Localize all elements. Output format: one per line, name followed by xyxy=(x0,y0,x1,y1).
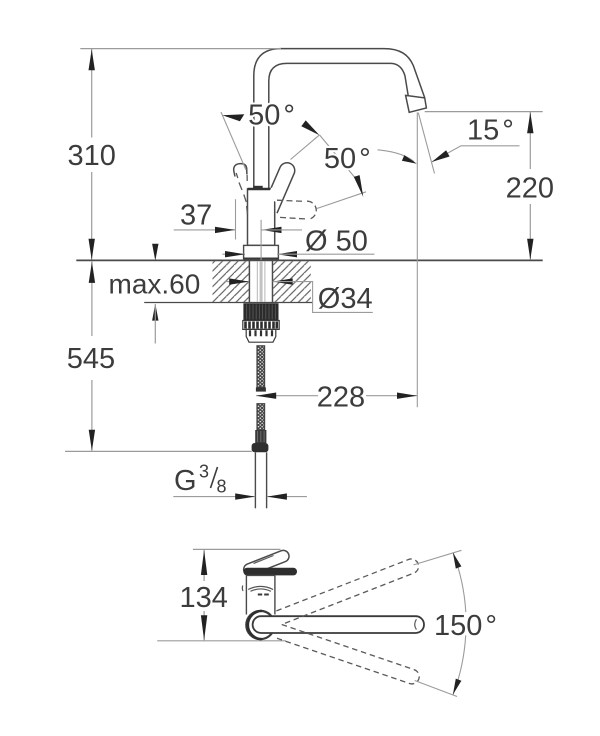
dimension 228 right arrow xyxy=(397,393,417,399)
dimension D34 left arrow tail xyxy=(225,281,249,283)
dimension 310 arrow up xyxy=(89,49,95,70)
dimension 37 right tail xyxy=(262,229,303,231)
angle 50 second: arc xyxy=(378,150,415,162)
angle 150: lower extension line xyxy=(415,681,457,697)
angle 50 second: arc arrow xyxy=(402,155,417,164)
dimension 228 left arrow xyxy=(256,393,276,399)
svg-text:3: 3 xyxy=(199,462,209,482)
threaded rod upper xyxy=(257,346,265,388)
dimension D34 left arrow xyxy=(229,278,249,284)
dimension 545 arrow up xyxy=(89,262,95,283)
svg-text:37: 37 xyxy=(180,200,212,232)
dimension max.60 arrow down (above counter) xyxy=(152,244,158,261)
angle 150: arrow bottom xyxy=(453,679,462,695)
dashed swivel spout upper xyxy=(276,559,418,625)
left lever left edge xyxy=(234,171,235,177)
nut ring slots xyxy=(246,322,277,329)
svg-text:150°: 150° xyxy=(434,610,497,642)
nut collar slots xyxy=(250,330,272,336)
svg-text:50°: 50° xyxy=(248,100,295,132)
front view: lever base plate xyxy=(243,568,297,576)
front view: logo marks xyxy=(258,594,262,596)
dimension 310 line xyxy=(91,49,93,138)
dimension D50 left arrow xyxy=(225,251,245,257)
angle 50 first: leader to open lever xyxy=(320,135,357,180)
angle 15 leader arrow xyxy=(432,150,450,162)
faucet arch inner outline xyxy=(269,63,409,189)
nut body knurled xyxy=(243,303,278,320)
faucet body top edge xyxy=(248,188,275,190)
angle 15: spout axis extension xyxy=(418,113,434,174)
dimension G 3/8 right arrow xyxy=(267,493,287,499)
countertop hatch left xyxy=(213,261,250,302)
shank tube right xyxy=(272,260,274,302)
front view: body seam arcs xyxy=(248,586,273,591)
svg-text:15°: 15° xyxy=(467,115,514,147)
dimension 134 arrow down xyxy=(201,615,207,640)
dimension max.60 arrow up (below counter) xyxy=(152,304,158,321)
spout outlet xyxy=(406,95,427,112)
countertop hatch right xyxy=(273,261,311,302)
angle 150: arrow top xyxy=(453,553,462,569)
nut lower collar xyxy=(246,329,276,342)
svg-text:220: 220 xyxy=(506,173,554,205)
svg-text:8: 8 xyxy=(217,477,227,497)
centerline xyxy=(260,220,262,260)
svg-text:G: G xyxy=(174,465,197,497)
dimension 545 arrow down xyxy=(89,430,95,451)
dimension D50 leader line xyxy=(277,253,375,255)
faucet body xyxy=(248,189,275,245)
tailpiece inner hose xyxy=(260,261,263,302)
svg-text:310: 310 xyxy=(68,140,116,172)
front view: 134 extension top xyxy=(193,548,281,550)
supply tube left xyxy=(254,452,256,508)
dimension 228 line xyxy=(256,395,318,397)
angle 50 first: left arrow xyxy=(222,114,244,121)
dimension 37 extension line xyxy=(235,199,237,239)
dimension 545 extension line bottom xyxy=(65,450,252,452)
dimension 37 left arrow xyxy=(215,227,235,233)
front view: ring left thick arc xyxy=(248,611,262,639)
dimension G 3/8 left arrow xyxy=(235,493,255,499)
dimension D50 right arrow xyxy=(277,251,297,257)
nut knurl ribs xyxy=(247,305,276,320)
dimension 545 line xyxy=(91,262,93,337)
front view: tube end inner arc xyxy=(415,619,417,629)
countertop top line xyxy=(76,259,542,261)
svg-text:50°: 50° xyxy=(324,143,371,175)
hose fitting nut xyxy=(252,443,269,452)
dimension D34 right arrow xyxy=(273,278,293,284)
front view: body xyxy=(246,575,276,615)
dimension 228 extension line xyxy=(416,112,418,407)
supply hose lower xyxy=(257,404,265,430)
dimension 220 extension line top xyxy=(425,111,543,113)
angle 50 first: leader arrow at open lever xyxy=(354,175,364,197)
dimension 220 line xyxy=(529,112,531,169)
dimension 220 arrow up xyxy=(527,112,533,133)
angle 150: upper extension line xyxy=(414,550,462,565)
left lever hidden part dashes xyxy=(236,173,247,214)
dimension D50 left arrow tail xyxy=(222,253,245,255)
shank tube left xyxy=(248,260,250,302)
angle 150: arc xyxy=(453,552,466,612)
dimension 310 arrow down xyxy=(89,239,95,260)
faucet base flange xyxy=(244,245,279,258)
front view: floor line xyxy=(157,640,286,642)
faucet arch outer outline xyxy=(254,49,425,189)
svg-text:Ø34: Ø34 xyxy=(318,283,373,315)
angle 15 leader xyxy=(432,146,520,162)
angle 50 first: right arrow xyxy=(301,120,319,135)
svg-text:134: 134 xyxy=(180,582,228,614)
svg-text:max.60: max.60 xyxy=(109,269,201,300)
dashed lever axis extension line xyxy=(317,192,366,209)
dimension 134 arrow up xyxy=(201,550,207,575)
left lever cap (solid) xyxy=(234,164,247,171)
lever pivot xyxy=(253,186,262,189)
hose end connector xyxy=(255,430,266,443)
threaded rod tip band xyxy=(256,387,266,391)
shank inner lines xyxy=(256,261,258,302)
front view: spout tube xyxy=(253,616,424,633)
countertop bottom line xyxy=(144,302,313,304)
dimension max.60 stub line xyxy=(154,304,156,344)
front view: lever xyxy=(244,550,289,575)
dimension D34 leader xyxy=(273,282,373,313)
dashed swivel spout lower xyxy=(277,625,419,684)
dimension 220 arrow down xyxy=(527,239,533,260)
nut slotted ring xyxy=(243,321,279,330)
supply tube right xyxy=(266,452,268,508)
dimension 37 right arrow xyxy=(262,227,282,233)
dimension 310 extension line top xyxy=(80,48,281,50)
dimension G 3/8 line xyxy=(173,496,255,498)
svg-text:228: 228 xyxy=(317,382,365,414)
left lever right edge xyxy=(246,169,248,175)
faucet base flange bottom line xyxy=(244,257,279,259)
dimension 37 tail line xyxy=(174,229,235,231)
front view: swivel ring xyxy=(246,611,274,639)
svg-text:545: 545 xyxy=(67,343,115,375)
angle 50 first: right leg line xyxy=(291,135,320,160)
front view: lever inner line xyxy=(254,556,274,564)
svg-text:Ø 50: Ø 50 xyxy=(305,226,368,258)
angle 50 first: left leg line xyxy=(221,112,246,170)
dashed lever (open position) xyxy=(277,200,317,219)
front view: left side arc xyxy=(241,586,244,592)
front view: 134 dimension line xyxy=(203,550,205,581)
right lever (solid) xyxy=(267,167,294,204)
